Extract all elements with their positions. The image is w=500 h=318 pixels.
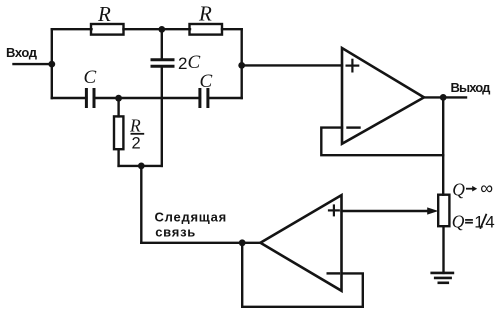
svg-text:∞: ∞ [480,178,493,198]
arrowhead wiper [427,207,438,214]
capacitor C2 [200,90,208,107]
svg-text:Q: Q [452,212,465,232]
U1 minus symbol [348,126,360,128]
wire top row segment 1 [52,28,92,30]
node output junction [440,94,447,101]
wire R/2 lower stub [117,149,119,166]
op-amp U2 [260,195,341,291]
svg-text:C: C [84,67,97,88]
U2 plus symbol [329,206,339,216]
wire 2C lower stub crossing bottom row [161,66,163,166]
node top-T junction [158,26,165,33]
U1 plus symbol [347,60,359,72]
op-amp U1 [342,48,424,144]
U2 minus symbol [328,272,339,274]
wire input lead [14,63,52,65]
wire U1 noninverting input [242,64,342,66]
label 2C value [178,52,201,73]
ground [432,273,453,283]
svg-text:2: 2 [178,54,187,73]
wire U2 noninverting input with wiper arrow [342,210,430,212]
svg-text:Вход: Вход [6,45,38,60]
wire output drop to potentiometer [442,97,444,194]
wire bottom row segment 2 [94,97,200,99]
wire bootstrap vertical [140,166,142,243]
label R/2 value [129,115,144,152]
label Sledyashchaya svyaz [155,210,228,240]
svg-text:R: R [129,115,141,135]
wire bottom row segment 1 [52,97,87,99]
wire 2C upper stub [161,29,163,59]
svg-text:C: C [188,52,201,73]
svg-text:R: R [97,2,111,26]
wire R/2 upper stub [117,98,119,116]
svg-text:Выход: Выход [451,80,492,95]
node U2 output junction [239,239,246,246]
wire left vertical [51,29,53,98]
node right-T junction [238,62,245,69]
svg-text:C: C [200,71,213,92]
wire U1 output [424,96,466,98]
wire potentiometer to ground [442,226,444,273]
svg-text:4: 4 [485,213,494,232]
wire bootstrap horizontal [119,165,162,167]
svg-text:связь: связь [155,224,196,239]
resistor R1 [91,24,124,35]
svg-text:2: 2 [132,134,141,152]
node bottom-T junction [115,95,122,102]
wire bootstrap to U2 output [141,242,260,244]
svg-text:R: R [198,1,212,25]
wire right vertical [240,29,242,98]
label Q equals one quarter [452,212,495,232]
wire U1 feedback [321,128,443,156]
node input junction [48,61,55,68]
node bootstrap junction [138,163,145,170]
label Q to infinity [452,178,493,199]
wire top row segment 3 [222,28,242,30]
svg-text:Следящая: Следящая [155,210,228,225]
capacitor 2C [152,60,173,66]
resistor R/2 [114,116,123,149]
svg-text:Q: Q [452,179,465,199]
resistor R2 [190,24,223,35]
potentiometer body [438,195,449,227]
wire top row segment 2 [124,28,191,30]
wire bottom row segment 3 [208,97,242,99]
wire U2 feedback [242,243,363,307]
capacitor C1 [86,90,94,107]
